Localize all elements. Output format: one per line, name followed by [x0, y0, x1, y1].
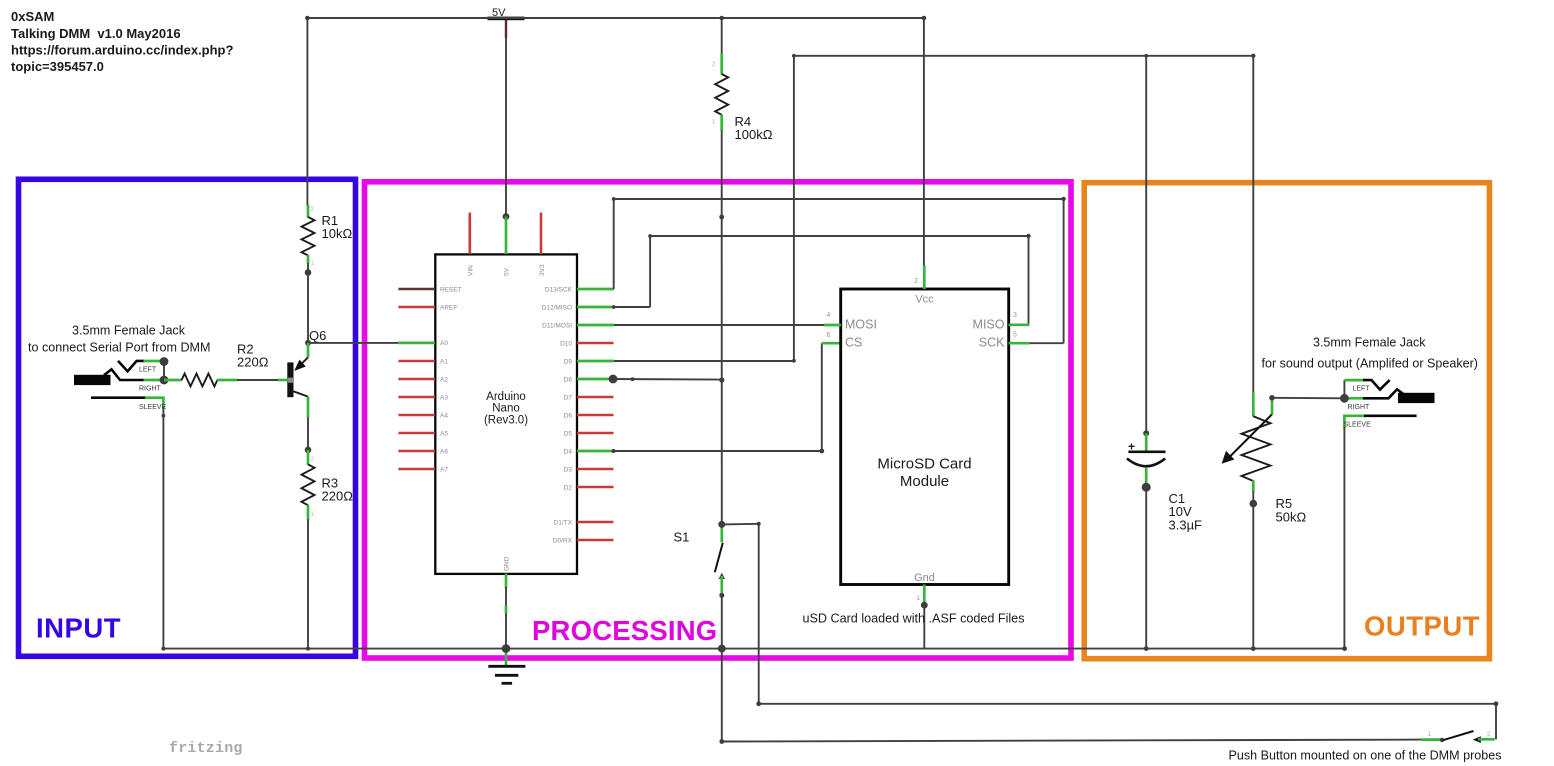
- svg-text:0xSAM: 0xSAM: [11, 9, 54, 24]
- svg-text:MISO: MISO: [973, 317, 1005, 331]
- pin D12/MISO stub: [577, 306, 614, 309]
- pin D4 stub: [577, 450, 614, 453]
- pin D13/SCK stub: [577, 288, 614, 291]
- svg-text:220Ω: 220Ω: [322, 489, 354, 504]
- svg-text:A0: A0: [440, 340, 448, 347]
- svg-text:Q6: Q6: [309, 328, 326, 343]
- node R4 top junction: [719, 16, 724, 21]
- svg-text:D8: D8: [564, 376, 573, 383]
- wire D11/MOSI to MOSI: [614, 324, 824, 326]
- node C1 tee on D9 wire: [1144, 54, 1148, 58]
- svg-text:MOSI: MOSI: [845, 317, 877, 331]
- svg-text:A5: A5: [440, 430, 448, 437]
- node D8-R4-S1 junction: [719, 377, 724, 382]
- node S1 bottom: [719, 593, 724, 598]
- svg-text:A3: A3: [440, 394, 448, 401]
- svg-text:A7: A7: [440, 466, 448, 473]
- svg-text:INPUT: INPUT: [36, 613, 121, 644]
- node GND rail junction: [502, 644, 511, 653]
- svg-text:1: 1: [917, 595, 921, 602]
- wire D12/MISO to MISO: [614, 236, 1029, 325]
- pin 4 MOSI stub: [824, 324, 841, 327]
- pin D6 stub: [577, 414, 614, 417]
- node C1 top: [1143, 430, 1149, 436]
- svg-text:D12/MISO: D12/MISO: [542, 304, 572, 311]
- pin 2 Vcc stub: [923, 266, 926, 290]
- svg-text:100kΩ: 100kΩ: [735, 127, 773, 142]
- node D9 corner: [792, 359, 796, 363]
- svg-text:RESET: RESET: [440, 286, 462, 293]
- wire R5 wiper to output jack: [1272, 397, 1344, 400]
- svg-text:AREF: AREF: [440, 304, 457, 311]
- node top-right corner: [792, 54, 796, 58]
- node Q6 collector node: [305, 340, 311, 346]
- wire 5V to MicroSD Vcc: [923, 18, 925, 266]
- pin A3 stub: [398, 396, 435, 399]
- node sleeve wire: [162, 414, 166, 418]
- wire D4 to CS: [614, 343, 842, 451]
- node output jack RIGHT: [1340, 394, 1349, 403]
- node R5 bottom: [1250, 500, 1258, 508]
- wire R3 to ground rail: [307, 519, 309, 648]
- node sleeve-rail junction: [161, 647, 165, 651]
- svg-text:RIGHT: RIGHT: [1348, 404, 1371, 411]
- pin A7 stub: [398, 468, 435, 471]
- svg-text:D7: D7: [564, 394, 573, 401]
- svg-text:for sound output (Amplifed or: for sound output (Amplifed or Speaker): [1262, 356, 1479, 371]
- svg-text:LEFT: LEFT: [1353, 385, 1371, 392]
- svg-text:3.5mm Female Jack: 3.5mm Female Jack: [1313, 335, 1426, 350]
- svg-text:D6: D6: [564, 412, 573, 419]
- svg-text:D11/MOSI: D11/MOSI: [542, 322, 572, 329]
- svg-text:GND: GND: [504, 556, 511, 571]
- node S1 right corner: [757, 522, 761, 526]
- pin D3 stub: [577, 468, 614, 471]
- svg-text:PROCESSING: PROCESSING: [532, 615, 717, 646]
- input 3.5mm female jack J1: [74, 361, 167, 411]
- svg-text:https://forum.arduino.cc/index: https://forum.arduino.cc/index.php?: [11, 43, 234, 58]
- pin 3V3 stub: [540, 213, 543, 255]
- pin 3 MISO stub: [1009, 323, 1030, 326]
- svg-text:3: 3: [1013, 312, 1017, 319]
- svg-text:1: 1: [1428, 731, 1432, 738]
- INPUT box: [19, 179, 356, 656]
- svg-text:Vcc: Vcc: [915, 294, 934, 306]
- wire S1 bottom to rail: [721, 595, 723, 648]
- wire R1 to Q6 node: [307, 273, 309, 343]
- pin 1 Gnd stub: [923, 585, 926, 606]
- svg-text:D13/SCK: D13/SCK: [545, 286, 573, 293]
- node MISO corner: [1026, 234, 1030, 238]
- svg-text:A4: A4: [440, 412, 448, 419]
- 5V power symbol: [488, 7, 525, 38]
- node pushbutton loop corner right: [1494, 701, 1499, 706]
- node R4 bottom: [719, 215, 724, 220]
- node C1 bottom: [1142, 483, 1151, 492]
- pin A2 stub: [398, 378, 435, 381]
- pin A5 stub: [398, 432, 435, 435]
- svg-text:fritzing: fritzing: [169, 740, 243, 757]
- op-amp U1 : Arduino Nano body: [435, 254, 577, 574]
- svg-text:5: 5: [1013, 332, 1017, 339]
- pin 5 SCK stub: [1009, 342, 1030, 345]
- title text block: [11, 9, 234, 74]
- svg-text:10kΩ: 10kΩ: [322, 226, 353, 241]
- node D12 corner: [648, 234, 652, 238]
- node R5 corner: [1251, 54, 1255, 58]
- svg-text:A6: A6: [440, 448, 448, 455]
- svg-text:OUTPUT: OUTPUT: [1364, 611, 1480, 642]
- pin A4 stub: [398, 414, 435, 417]
- node D4-CS corner: [819, 449, 824, 454]
- output 3.5mm female jack J2: [1344, 380, 1435, 428]
- svg-text:D4: D4: [564, 448, 573, 455]
- svg-text:D5: D5: [564, 430, 573, 437]
- svg-text:MicroSD Card: MicroSD Card: [877, 456, 971, 473]
- resistor R3: [302, 450, 354, 520]
- capacitor C1: [1127, 433, 1202, 532]
- pin A0 stub: [398, 342, 435, 345]
- resistor R1: [302, 205, 353, 273]
- svg-text:3.3µF: 3.3µF: [1169, 518, 1203, 533]
- push button SW2: [1421, 731, 1495, 743]
- svg-text:Arduino: Arduino: [486, 391, 526, 403]
- svg-text:3V3: 3V3: [539, 264, 546, 276]
- wire S1 top to push button loop: [722, 524, 1496, 740]
- wire D9 to R5 top: [614, 56, 1253, 393]
- wire rail to push button left: [721, 649, 723, 742]
- potentiometer R5: [1222, 392, 1307, 524]
- svg-text:D3: D3: [564, 466, 573, 473]
- pin A6 stub: [398, 450, 435, 453]
- svg-text:(Rev3.0): (Rev3.0): [484, 414, 528, 426]
- wire Gnd to rail: [923, 605, 925, 649]
- svg-text:A1: A1: [440, 358, 448, 365]
- svg-text:4: 4: [827, 312, 831, 319]
- svg-text:VIN: VIN: [468, 265, 475, 276]
- svg-text:220Ω: 220Ω: [237, 355, 269, 370]
- svg-text:SLEEVE: SLEEVE: [139, 404, 167, 411]
- node C1 rail junction: [1144, 646, 1149, 651]
- svg-text:Talking DMM v1.0 May2016: Talking DMM v1.0 May2016: [11, 26, 181, 41]
- svg-text:Push Button mounted on one of: Push Button mounted on one of the DMM pr…: [1229, 748, 1502, 763]
- pin D0/RX stub: [577, 539, 614, 542]
- node S1-rail junction: [718, 645, 726, 653]
- node D8 wire small dot: [631, 377, 635, 381]
- pin AREF stub: [398, 306, 435, 309]
- wire 5V down to Arduino 5V pin: [505, 37, 507, 217]
- svg-text:D10: D10: [560, 340, 572, 347]
- wire R5 to rail: [1252, 504, 1254, 650]
- node 5V pin junction: [503, 213, 510, 220]
- svg-text:50kΩ: 50kΩ: [1276, 509, 1307, 524]
- svg-text:SLEEVE: SLEEVE: [1344, 421, 1372, 428]
- svg-text:A2: A2: [440, 376, 448, 383]
- wire A0 to Q6 node: [308, 342, 398, 344]
- svg-text:CS: CS: [845, 336, 862, 350]
- wire R2 to Q6 base: [237, 379, 279, 381]
- node R1 bottom: [305, 269, 312, 276]
- svg-text:Gnd: Gnd: [914, 572, 935, 584]
- wire 5V to R1 (left vertical): [306, 18, 308, 206]
- pin D1/TX stub: [577, 521, 614, 524]
- svg-text:to connect Serial Port from DM: to connect Serial Port from DMM: [28, 339, 211, 354]
- wire D13/SCK to SCK: [614, 199, 1064, 343]
- node R5 rail junction: [1251, 646, 1256, 651]
- wire C1 to rail: [1145, 487, 1147, 649]
- node 5V-left corner: [305, 16, 310, 21]
- pin D2 stub: [577, 486, 614, 489]
- svg-text:2: 2: [1487, 731, 1491, 738]
- svg-text:D9: D9: [564, 358, 573, 365]
- MicroSD Card Module U2: [841, 289, 1009, 585]
- pin A1 stub: [398, 360, 435, 363]
- svg-text:D1/TX: D1/TX: [554, 519, 573, 526]
- switch S1: [674, 524, 726, 593]
- wire output sleeve to rail: [1343, 427, 1345, 649]
- pin D9 stub: [577, 360, 614, 363]
- pin 5V stub: [505, 217, 508, 255]
- node D4 stub end: [612, 449, 616, 453]
- resistor R2: [182, 341, 269, 386]
- pin D5 stub: [577, 432, 614, 435]
- pin D11/MOSI stub: [577, 324, 614, 327]
- pin VIN stub: [468, 213, 471, 255]
- svg-text:3.5mm Female Jack: 3.5mm Female Jack: [72, 323, 185, 338]
- node R3 top: [305, 447, 312, 454]
- node D8 stub big dot: [609, 375, 618, 384]
- resistor R4: [715, 18, 772, 217]
- node sleeve rail end: [1342, 646, 1347, 651]
- svg-text:SCK: SCK: [979, 336, 1005, 350]
- node S1 top: [718, 521, 725, 528]
- node R3-rail junction: [306, 647, 310, 651]
- transistor Q2 label Q6: [287, 328, 326, 418]
- node SCK corner: [1061, 197, 1065, 201]
- pin D8 stub: [577, 378, 613, 381]
- node jack RIGHT: [160, 376, 169, 385]
- svg-text:5V: 5V: [504, 267, 511, 276]
- node R5 wiper: [1269, 395, 1275, 401]
- svg-text:uSD Card loaded with .ASF code: uSD Card loaded with .ASF coded Files: [803, 611, 1025, 626]
- pin D7 stub: [577, 396, 614, 399]
- wire jack SLEEVE down to rail: [162, 407, 164, 649]
- OUTPUT box: [1084, 183, 1489, 659]
- wire R4 to D8 junction to S1: [721, 217, 723, 524]
- ground rail wire: [163, 648, 1344, 650]
- svg-text:Module: Module: [900, 473, 949, 490]
- svg-text:D2: D2: [564, 484, 573, 491]
- ground symbol: [488, 574, 525, 684]
- pin RESET stub: [398, 288, 435, 290]
- node D12 stub end: [612, 305, 616, 309]
- node 5V-right corner: [922, 16, 927, 21]
- wire C1 vertical from D9 wire: [1145, 56, 1147, 434]
- wire D8 to R4/S1 vertical: [613, 378, 722, 381]
- svg-text:RIGHT: RIGHT: [139, 386, 162, 393]
- PROCESSING box: [365, 182, 1072, 658]
- wire 5V rail horizontal: [307, 17, 924, 19]
- node jack LEFT: [160, 357, 169, 366]
- svg-text:2: 2: [914, 278, 918, 285]
- wire jack RIGHT to R2: [164, 379, 182, 382]
- svg-text:Nano: Nano: [492, 403, 520, 415]
- pin D10 stub: [577, 342, 614, 345]
- svg-text:6: 6: [827, 332, 831, 339]
- node pushbutton wire left end: [719, 739, 724, 744]
- svg-text:LEFT: LEFT: [139, 366, 157, 373]
- node pushbutton loop corner left: [756, 701, 761, 706]
- svg-text:S1: S1: [674, 529, 690, 544]
- node Gnd dot: [921, 602, 928, 609]
- wire Q6 collector to R3: [307, 418, 309, 450]
- svg-text:topic=395457.0: topic=395457.0: [11, 59, 104, 74]
- node D13 corner: [612, 197, 616, 201]
- svg-text:D0/RX: D0/RX: [553, 537, 573, 544]
